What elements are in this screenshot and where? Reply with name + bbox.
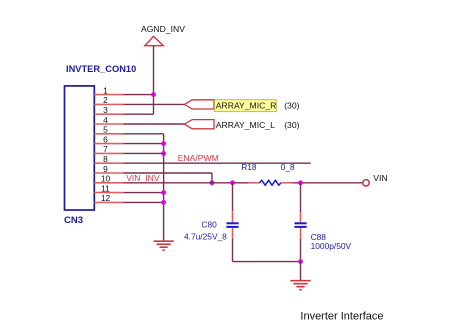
junction dot pin12 bbox=[161, 200, 166, 205]
wire resistor to VIN bbox=[293, 182, 363, 184]
svg-text:(30): (30) bbox=[284, 120, 299, 130]
wire pin3 horizontal bbox=[124, 113, 154, 115]
wire pin2 to ARRAY_MIC_R arrow bbox=[124, 103, 185, 105]
svg-text:10: 10 bbox=[101, 174, 111, 184]
svg-text:ENA/PWM: ENA/PWM bbox=[178, 153, 219, 163]
junction dot C80 branch bbox=[230, 180, 235, 185]
pin 5 stub bbox=[94, 133, 123, 135]
svg-text:(30): (30) bbox=[284, 100, 299, 110]
svg-text:12: 12 bbox=[101, 193, 111, 203]
capacitor C88 plates bbox=[294, 223, 306, 227]
svg-text:AGND_INV: AGND_INV bbox=[141, 24, 185, 34]
connector CN3 body bbox=[65, 86, 95, 210]
wire pin1 to AGND junction bbox=[124, 94, 154, 96]
svg-text:CN3: CN3 bbox=[64, 215, 83, 226]
wire ground stem bbox=[300, 262, 302, 281]
port VIN open circle bbox=[363, 180, 369, 186]
pin 6 stub bbox=[94, 143, 123, 145]
junction dot at AGND/pin1 bbox=[151, 92, 156, 97]
ground symbol under C88 bbox=[290, 281, 310, 290]
junction dot pin9/VIN_INV bbox=[210, 180, 215, 185]
wire pin10 VIN_INV to resistor bbox=[124, 182, 251, 184]
pin 10 stub bbox=[94, 182, 123, 184]
wire pin6 horizontal bbox=[124, 143, 164, 145]
svg-text:11: 11 bbox=[101, 183, 110, 193]
svg-text:6: 6 bbox=[103, 134, 108, 144]
wire C88 branch down bbox=[300, 183, 302, 212]
pin 4 stub bbox=[94, 123, 123, 125]
svg-text:4: 4 bbox=[103, 115, 108, 125]
pin 9 stub bbox=[94, 172, 123, 174]
pin 11 stub bbox=[94, 192, 123, 194]
wire C80 bottom down bbox=[232, 239, 234, 262]
capacitor C80 top pin bbox=[232, 211, 234, 222]
svg-text:VIN_INV: VIN_INV bbox=[126, 173, 160, 183]
off-page connector ARRAY_MIC_L arrow bbox=[184, 120, 214, 129]
svg-text:1: 1 bbox=[103, 85, 108, 95]
wire pin7 horizontal bbox=[124, 152, 164, 154]
wire pin11 horizontal bbox=[124, 192, 164, 194]
wire pin5 horizontal bbox=[124, 133, 164, 135]
wire C80 bottom to C88 bottom bbox=[233, 261, 301, 263]
svg-text:INVTER_CON10: INVTER_CON10 bbox=[66, 64, 136, 74]
wire C88 bottom to junction bbox=[300, 239, 302, 262]
svg-text:9: 9 bbox=[103, 164, 108, 174]
svg-text:8: 8 bbox=[103, 154, 108, 164]
wire pin9 drop to VIN_INV net bbox=[211, 173, 213, 183]
power symbol AGND_INV triangle bbox=[145, 36, 164, 45]
wire pin8 ENA/PWM bbox=[124, 162, 311, 164]
junction dot pin11 bbox=[161, 190, 166, 195]
capacitor C80 plates bbox=[226, 223, 238, 227]
pin 1 stub bbox=[94, 94, 123, 96]
wire pin9 horizontal bbox=[124, 172, 212, 174]
wire pin4 to ARRAY_MIC_L arrow bbox=[124, 123, 185, 125]
resistor R18 left pin bbox=[249, 182, 261, 184]
wire vertical bus pin5 to ground bbox=[163, 134, 165, 241]
pin 8 stub bbox=[94, 162, 123, 164]
svg-text:0_8: 0_8 bbox=[281, 162, 295, 172]
junction dot C88 branch bbox=[298, 180, 303, 185]
svg-text:5: 5 bbox=[103, 125, 108, 135]
svg-text:3: 3 bbox=[103, 105, 108, 115]
junction dot pin6 bbox=[161, 141, 166, 146]
svg-text:VIN: VIN bbox=[373, 173, 387, 183]
svg-text:2: 2 bbox=[103, 95, 108, 105]
pin 2 stub bbox=[94, 103, 123, 105]
svg-text:ARRAY_MIC_R: ARRAY_MIC_R bbox=[216, 100, 276, 110]
svg-text:C80: C80 bbox=[201, 220, 217, 230]
capacitor C88 bottom pin bbox=[300, 228, 302, 239]
svg-text:R18: R18 bbox=[241, 162, 257, 172]
wire AGND stem bbox=[153, 46, 155, 95]
pin 3 stub bbox=[94, 113, 123, 115]
resistor R18 right pin bbox=[281, 182, 293, 184]
pin 7 stub bbox=[94, 152, 123, 154]
pin 12 stub bbox=[94, 201, 123, 203]
capacitor C80 bottom pin bbox=[232, 228, 234, 239]
svg-text:ARRAY_MIC_L: ARRAY_MIC_L bbox=[216, 120, 275, 130]
wire pin12 horizontal bbox=[124, 201, 164, 203]
junction dot pin7 bbox=[161, 151, 166, 156]
resistor R18 zigzag bbox=[260, 180, 282, 185]
ground symbol under connector bus bbox=[154, 241, 174, 250]
highlight box on ARRAY_MIC_R label bbox=[215, 100, 277, 112]
wire AGND junction down to pin3 level bbox=[153, 95, 155, 115]
off-page connector ARRAY_MIC_R arrow bbox=[184, 100, 214, 109]
wire C80 branch down bbox=[232, 183, 234, 211]
svg-text:Inverter Interface: Inverter Interface bbox=[300, 310, 383, 322]
capacitor C88 top pin bbox=[300, 212, 302, 222]
svg-text:7: 7 bbox=[103, 144, 108, 154]
junction dot ground node bbox=[298, 259, 303, 264]
svg-text:1000p/50V: 1000p/50V bbox=[311, 241, 352, 251]
svg-text:4.7u/25V_8: 4.7u/25V_8 bbox=[184, 231, 227, 241]
